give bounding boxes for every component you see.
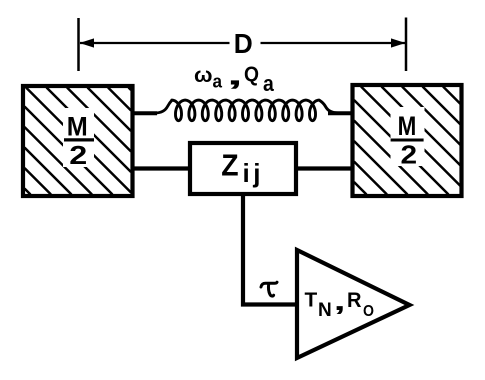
label M/2 right — [391, 111, 424, 170]
spring (coil) between masses — [135, 100, 351, 121]
svg-text:2: 2 — [69, 140, 87, 170]
svg-text:N: N — [318, 300, 332, 321]
svg-text:M: M — [398, 111, 417, 141]
amplifier triangle T_N, R_O — [297, 250, 410, 358]
svg-text:a: a — [263, 71, 274, 96]
box Z_ij — [190, 143, 296, 194]
label omega_a, Q_a — [194, 60, 274, 97]
dimension line D: right tick — [405, 18, 408, 72]
dimension line D: left segment with arrowhead — [80, 38, 230, 47]
svg-text:a: a — [213, 72, 223, 92]
label M/2 left — [64, 112, 94, 171]
svg-text:Q: Q — [244, 63, 259, 86]
dimension line D: left tick — [77, 18, 80, 71]
svg-text:,: , — [334, 286, 346, 316]
label tau — [261, 282, 277, 296]
svg-text:O: O — [363, 303, 374, 320]
svg-text:,: , — [227, 60, 243, 91]
wire stub: spring to right mass — [328, 111, 351, 115]
svg-text:D: D — [234, 28, 253, 59]
dimension line D: right segment with arrowhead — [261, 38, 406, 47]
wire stub: left mass to spring — [134, 111, 157, 115]
svg-text:ij: ij — [243, 158, 264, 188]
wire: Z box down to amplifier — [243, 194, 295, 305]
mass M/2 left: hatched box — [23, 86, 133, 196]
label T_N, R_O — [305, 286, 375, 321]
svg-text:ω: ω — [194, 64, 213, 87]
svg-text:Z: Z — [221, 148, 238, 183]
svg-text:R: R — [347, 289, 362, 312]
svg-text:T: T — [305, 290, 318, 312]
svg-text:M: M — [67, 112, 88, 142]
wire: left mass to Z box — [134, 166, 190, 170]
svg-text:2: 2 — [401, 140, 418, 170]
label Z_ij — [221, 148, 264, 189]
mass M/2 right: hatched box — [353, 85, 462, 196]
wire: Z box to right mass — [296, 166, 353, 170]
